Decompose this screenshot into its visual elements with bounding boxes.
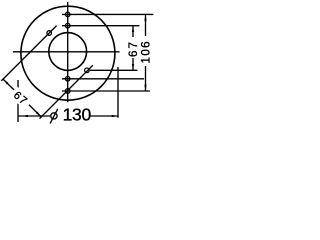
dimension line ⌀130 right segment	[91, 115, 119, 117]
horizontal centerline	[13, 51, 120, 53]
dimension line ⌀130 left segment	[18, 115, 50, 117]
extension line from C4	[62, 78, 144, 80]
extension line from C5 (106 bottom)	[62, 90, 150, 92]
hole C2 top	[65, 12, 70, 17]
extension line ⌀130 right	[117, 67, 119, 118]
extension line L1 through C1 (45°)	[1, 26, 56, 81]
svg-text:67: 67	[127, 40, 140, 57]
hole C3	[65, 23, 70, 28]
extension line from C2 (106 top)	[62, 13, 153, 15]
svg-text:106: 106	[140, 40, 153, 64]
svg-text:130: 130	[63, 105, 92, 125]
inner circle	[49, 33, 87, 71]
dimension line 106 bottom segment	[145, 66, 147, 91]
vertical centerline	[67, 2, 69, 102]
dimension line 106 top segment	[145, 14, 147, 36]
hole C1 diagonal upper-left	[47, 31, 52, 36]
label 106	[140, 40, 153, 64]
hole C4	[65, 77, 70, 82]
extension line L2 through C6 and C5 (45°)	[40, 65, 93, 118]
outer circle (plate ⌀130)	[21, 6, 115, 100]
extension line from C6 (67 bottom)	[90, 69, 138, 71]
hole C5	[65, 89, 70, 94]
dimension line 67 vertical top segment	[132, 26, 134, 37]
dimension line 67 vertical bottom segment	[132, 58, 134, 70]
extension line ⌀130 left	[17, 80, 19, 122]
extension line from C3 (67 top)	[62, 25, 140, 27]
diagonal dimension line 67	[3, 79, 41, 117]
label 67 (vertical)	[127, 40, 140, 57]
label 67 (diagonal)	[9, 87, 34, 111]
hole C6 diagonal lower-right	[85, 68, 90, 73]
label ⌀130 phi symbol	[50, 109, 58, 123]
